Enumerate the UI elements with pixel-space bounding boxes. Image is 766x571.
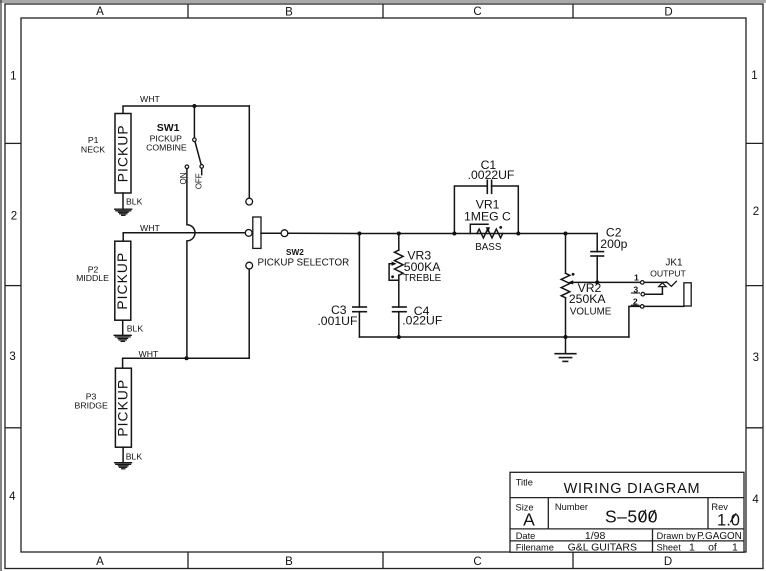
svg-text:WHT: WHT	[140, 223, 160, 233]
svg-text:PICKUP: PICKUP	[115, 252, 130, 310]
wire JK1 pin2 riser	[629, 306, 640, 337]
svg-text:WHT: WHT	[139, 349, 159, 359]
svg-text:Number: Number	[555, 502, 588, 512]
svg-text:PICKUP: PICKUP	[115, 124, 130, 182]
svg-text:S–500: S–500	[605, 507, 658, 527]
label C1 .0022UF	[468, 158, 515, 182]
title block	[510, 472, 744, 552]
capacitor C3	[353, 234, 367, 338]
wire SW2 bottom contact down to P3 wire	[248, 269, 250, 358]
label VR2 250KA VOLUME	[569, 281, 612, 318]
jack JK1	[631, 281, 691, 309]
svg-text:PICKUP: PICKUP	[116, 379, 131, 437]
wire BLK P2 to ground	[122, 320, 124, 335]
wire main bus SW2 to C2 corner	[288, 232, 597, 234]
node junction P3 wire / SW1 ON wire	[185, 356, 189, 360]
label JK1 OUTPUT	[650, 257, 686, 278]
label P3 BRIDGE	[75, 392, 109, 411]
svg-text:4: 4	[9, 491, 16, 503]
rev 1.0	[717, 512, 740, 530]
node junction P1 wire / SW1	[192, 104, 196, 108]
svg-text:1: 1	[634, 273, 639, 283]
selector SW2	[245, 198, 288, 269]
svg-text:1.0: 1.0	[717, 512, 740, 530]
label C3 .001UF	[317, 303, 357, 328]
capacitor C2	[591, 234, 604, 283]
svg-text:D: D	[664, 556, 672, 568]
ground main	[555, 337, 576, 361]
node junction bottom bus / VR2 bottom	[564, 335, 568, 339]
title block labels	[516, 477, 729, 552]
node junction bottom bus / C4	[397, 335, 401, 339]
label C4 .022UF	[402, 304, 442, 328]
label SW2 PICKUP SELECTOR	[258, 248, 350, 269]
svg-text:BLK: BLK	[127, 324, 144, 334]
svg-text:3: 3	[633, 284, 638, 294]
potentiometer VR2 (volume)	[561, 234, 641, 338]
wire bottom bus C3 to JK1 pin2 riser	[359, 336, 629, 338]
svg-text:VOLUME: VOLUME	[570, 307, 612, 318]
svg-text:200p: 200p	[600, 237, 627, 251]
label C2 200p	[600, 226, 627, 251]
svg-text:Sheet: Sheet	[657, 543, 682, 553]
wire WHT from P2 to SW2	[123, 233, 245, 241]
svg-text:3: 3	[9, 351, 15, 363]
wire WHT from P1 to SW1/SW2	[123, 106, 249, 114]
svg-text:MIDDLE: MIDDLE	[76, 273, 109, 283]
node junction bus / VR1 left	[452, 232, 456, 236]
label P1 NECK	[81, 135, 105, 154]
svg-text:2: 2	[633, 297, 638, 307]
svg-text:Title: Title	[516, 477, 533, 487]
svg-text:A: A	[96, 556, 104, 568]
svg-text:1/98: 1/98	[585, 530, 606, 542]
node junction bus / VR2 top	[564, 232, 568, 236]
svg-text:C: C	[473, 6, 481, 18]
svg-text:1: 1	[732, 542, 738, 554]
svg-text:3: 3	[753, 352, 759, 364]
label SW1 PICKUP COMBINE	[146, 122, 187, 153]
svg-text:1: 1	[689, 542, 695, 554]
sheet 1 of 1	[689, 542, 738, 554]
label P2 MIDDLE	[76, 264, 109, 283]
svg-text:C: C	[473, 556, 481, 568]
wire BLK P1 to ground	[122, 193, 124, 209]
svg-text:D: D	[664, 7, 672, 19]
svg-text:WHT: WHT	[140, 94, 160, 104]
svg-text:1: 1	[751, 70, 757, 82]
capacitor C4	[393, 307, 407, 337]
wire WHT from P3 to SW2 bottom branch	[123, 358, 250, 368]
pin labels 1 3 2	[633, 273, 639, 307]
ground P1	[115, 209, 132, 215]
svg-text:BLK: BLK	[126, 452, 143, 462]
pickup P1	[115, 114, 131, 194]
node junction VR2 wiper / C2	[595, 280, 599, 284]
pickup P3	[115, 368, 131, 447]
potentiometer VR3 (treble)	[389, 234, 403, 308]
ground P3	[115, 463, 132, 469]
svg-text:G&L GUITARS: G&L GUITARS	[568, 542, 637, 554]
svg-text:WIRING DIAGRAM: WIRING DIAGRAM	[564, 481, 701, 497]
svg-text:BASS: BASS	[475, 242, 502, 253]
svg-text:Filename: Filename	[516, 543, 554, 553]
switch SW1	[185, 106, 203, 175]
svg-text:NECK: NECK	[81, 144, 105, 154]
ground P2	[114, 335, 131, 341]
capacitor C1	[454, 180, 518, 233]
svg-text:2: 2	[11, 211, 17, 223]
svg-text:TREBLE: TREBLE	[403, 273, 442, 284]
svg-text:4: 4	[752, 494, 759, 506]
svg-text:.022UF: .022UF	[402, 314, 442, 328]
svg-text:SW1: SW1	[157, 122, 180, 134]
label VR1 1MEG C BASS	[464, 198, 511, 254]
svg-text:B: B	[285, 7, 293, 19]
wire SW1 right branch down to SW2	[248, 106, 250, 198]
svg-text:BRIDGE: BRIDGE	[75, 400, 109, 410]
svg-text:Rev: Rev	[711, 502, 728, 512]
wire BLK P3 to ground	[122, 447, 124, 462]
potentiometer VR1 (bass)	[470, 224, 502, 238]
svg-text:B: B	[285, 556, 293, 568]
svg-text:OUTPUT: OUTPUT	[650, 268, 686, 278]
node junction bus / C3	[357, 232, 361, 236]
svg-text:.0022UF: .0022UF	[468, 168, 515, 182]
wire SW1 ON contact down to P3 (with hop over P2 wire)	[187, 169, 195, 359]
svg-text:OFF: OFF	[194, 173, 203, 189]
label VR3 500KA TREBLE	[403, 248, 442, 284]
pickup P2	[115, 241, 131, 320]
svg-text:BLK: BLK	[126, 197, 143, 207]
svg-text:500KA: 500KA	[404, 260, 441, 274]
svg-text:PICKUP SELECTOR: PICKUP SELECTOR	[258, 258, 350, 269]
node junction bus / VR3	[397, 232, 401, 236]
svg-text:.001UF: .001UF	[317, 314, 357, 328]
svg-text:of: of	[708, 542, 717, 554]
svg-text:JK1: JK1	[665, 257, 683, 268]
svg-text:A: A	[523, 510, 535, 530]
node junction bus / VR1 right	[516, 232, 520, 236]
svg-text:1MEG C: 1MEG C	[464, 210, 511, 224]
number S-500	[605, 507, 658, 527]
svg-text:1: 1	[10, 71, 16, 83]
svg-text:250KA: 250KA	[569, 292, 606, 306]
svg-text:A: A	[96, 6, 104, 18]
svg-text:2: 2	[753, 206, 759, 218]
svg-text:COMBINE: COMBINE	[146, 143, 187, 153]
svg-text:Drawn by: Drawn by	[657, 531, 697, 541]
svg-text:SW2: SW2	[286, 248, 304, 257]
svg-text:Date: Date	[516, 531, 536, 541]
